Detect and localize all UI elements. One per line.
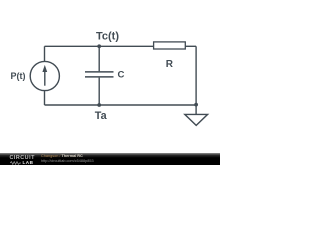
wire resistor right to corner xyxy=(185,45,196,47)
node dot bottom (Ta) xyxy=(97,103,101,107)
capacitor C xyxy=(85,72,114,77)
wire left vertical upper xyxy=(44,46,46,62)
current source P(t) xyxy=(30,61,59,90)
wire top horizontal xyxy=(45,45,154,47)
credit text xyxy=(41,154,83,158)
node dot top (Tc) xyxy=(97,44,101,48)
svg-text:Ta: Ta xyxy=(95,110,108,122)
wire capacitor bottom lead xyxy=(98,78,100,105)
svg-text:P(t): P(t) xyxy=(11,71,26,81)
wire left vertical lower xyxy=(44,90,46,105)
watermark bar xyxy=(0,153,220,166)
resistor R xyxy=(154,42,186,49)
wire right vertical xyxy=(195,46,197,105)
ground xyxy=(185,114,208,125)
wire capacitor top lead xyxy=(98,46,100,71)
CircuitLab logo xyxy=(10,156,35,161)
node dot right (gnd) xyxy=(194,103,198,107)
svg-text:R: R xyxy=(166,59,174,70)
wire bottom horizontal xyxy=(45,104,197,106)
svg-text:C: C xyxy=(118,70,125,81)
svg-text:Tc(t): Tc(t) xyxy=(96,31,119,43)
wire ground lead xyxy=(195,105,197,114)
